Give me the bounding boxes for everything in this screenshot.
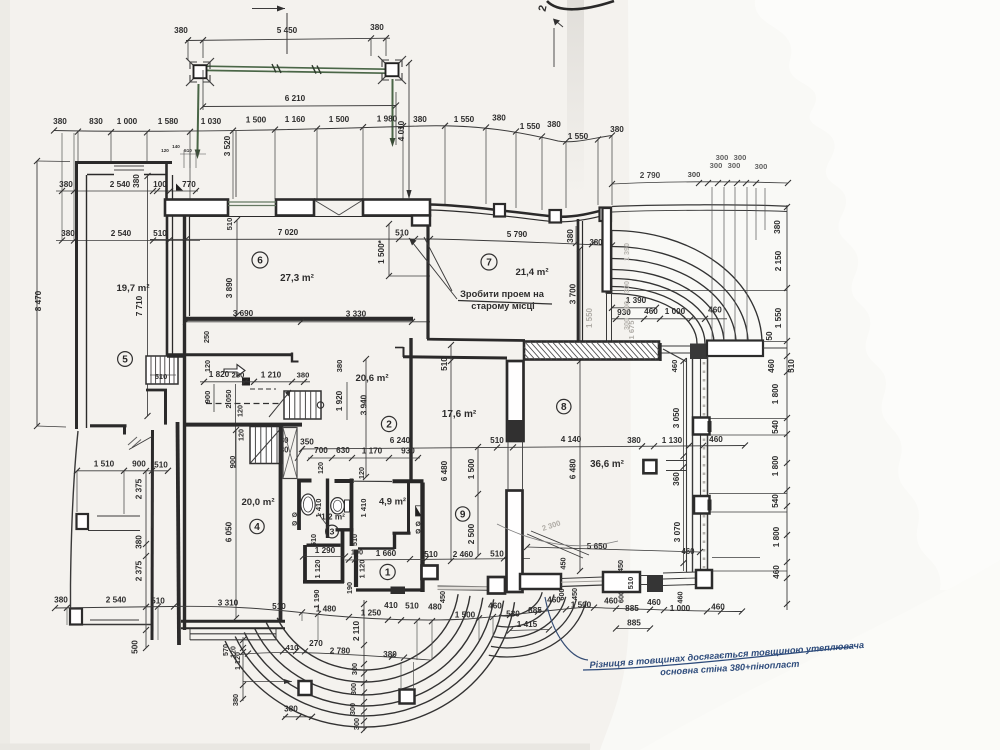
svg-text:885: 885	[627, 619, 641, 628]
wall r4 bottom b	[181, 627, 285, 629]
tick 6050 a	[233, 427, 239, 433]
tick top dim 0	[185, 37, 191, 43]
dim row 1510-900-510	[77, 470, 168, 472]
connector rc g	[712, 557, 760, 559]
tick rowB 418	[415, 455, 421, 461]
svg-text:885: 885	[528, 606, 542, 615]
tick 1500s b	[386, 273, 392, 279]
svg-text:510: 510	[787, 359, 796, 373]
terrace top edge outer	[612, 205, 787, 207]
tick main row 14	[563, 139, 569, 145]
tiny tick b	[189, 150, 191, 168]
dim line 380-5450-380 top	[186, 38, 390, 40]
room number 8 circle	[557, 399, 571, 413]
stair NW tread 4	[168, 356, 170, 384]
svg-text:510: 510	[272, 602, 286, 611]
step r4 end l	[189, 629, 191, 641]
svg-text:930: 930	[401, 447, 415, 456]
terrace ext vertical 3	[746, 187, 748, 340]
entrance fan arc 0	[225, 602, 514, 727]
connector rc c	[709, 493, 787, 495]
stair lower tread 4	[276, 427, 278, 464]
svg-text:460: 460	[488, 602, 502, 611]
tick south 6	[315, 611, 321, 617]
tick main row 16	[609, 133, 615, 139]
tick south 5	[299, 609, 305, 615]
svg-text:885: 885	[625, 604, 639, 613]
terrace ext vertical 0	[711, 187, 713, 340]
ext south 4	[317, 614, 319, 640]
wall west jog	[90, 424, 127, 427]
wall below NW stair	[146, 389, 167, 392]
tick 2500 556	[475, 553, 481, 559]
wall NW top inner b	[144, 174, 167, 176]
stair lower tread 0	[254, 427, 256, 464]
svg-text:380: 380	[59, 180, 73, 189]
svg-text:1 920: 1 920	[335, 390, 344, 411]
svg-text:380: 380	[383, 650, 397, 659]
svg-text:4,9 m²: 4,9 m²	[379, 496, 406, 507]
svg-text:360: 360	[672, 472, 681, 486]
terrace band join thin a	[659, 345, 690, 347]
svg-text:1 000: 1 000	[670, 604, 691, 613]
tick rightcol 341	[784, 338, 790, 344]
svg-text:6 480: 6 480	[440, 460, 449, 481]
black square column mark	[242, 378, 250, 386]
svg-text:380: 380	[335, 360, 344, 373]
svg-text:1 550: 1 550	[774, 307, 783, 328]
tick south 18	[613, 606, 619, 612]
blue note leader	[545, 597, 588, 660]
terrace ext short a	[755, 188, 757, 240]
svg-text:380: 380	[370, 23, 384, 32]
dim vert 3940	[365, 359, 367, 477]
svg-text:380: 380	[566, 229, 575, 243]
tick rowA 689	[686, 443, 692, 449]
sw diag mark	[129, 437, 152, 450]
extension line col1 left	[187, 41, 189, 60]
arrow pier dim	[284, 679, 292, 684]
dim column right	[786, 205, 788, 610]
terrace right thin	[763, 347, 787, 349]
step r4 b	[190, 639, 276, 641]
svg-text:1 030: 1 030	[201, 117, 222, 126]
svg-text:3 070: 3 070	[673, 521, 682, 542]
terrace west wall	[603, 208, 612, 292]
door jamb b	[522, 441, 524, 490]
svg-text:3 690: 3 690	[233, 309, 254, 318]
svg-text:1 550: 1 550	[585, 307, 594, 328]
hatch sw jog	[128, 437, 141, 448]
wall corridor east thin a	[606, 293, 608, 343]
svg-text:1 410: 1 410	[359, 498, 368, 517]
stair lower tread 3	[271, 427, 273, 464]
wall NW top inner a	[87, 174, 114, 176]
south thin d3	[663, 585, 696, 586]
ext 1500 star	[389, 275, 430, 277]
tick top dim 2	[368, 35, 374, 41]
svg-text:1 170: 1 170	[362, 447, 383, 456]
svg-text:1 210: 1 210	[261, 371, 282, 380]
pier tall lower	[507, 491, 523, 593]
tick 3690 c	[409, 319, 415, 325]
stair NW tread 1	[155, 356, 157, 384]
window r6 green a	[228, 201, 276, 203]
dim row 885b	[616, 628, 650, 630]
wall NW top outer	[75, 161, 172, 164]
tick 270row 404	[401, 655, 407, 661]
svg-text:190: 190	[345, 582, 354, 594]
terrace step arc 1	[612, 247, 748, 344]
tick top dim 3	[383, 35, 389, 41]
tick rightcol 506	[784, 503, 790, 509]
svg-text:900: 900	[132, 460, 146, 469]
tick south 7	[346, 614, 352, 620]
svg-text:300: 300	[688, 170, 701, 179]
svg-text:510: 510	[154, 461, 168, 470]
extension r7 wall	[575, 226, 577, 243]
entrance fan arc 3	[254, 598, 482, 695]
tick 300col 721	[361, 718, 367, 724]
pier vert b	[413, 662, 415, 688]
note underline	[458, 301, 552, 305]
window r6 V diag a	[315, 201, 339, 216]
extension line main row 12	[541, 137, 543, 210]
dim col 300	[363, 600, 365, 731]
pier r8 east b	[694, 496, 710, 514]
scan fold shadow streak	[567, 0, 584, 195]
tick 300col 711.5	[361, 709, 367, 715]
tick south 9	[398, 617, 404, 623]
window sill NW a	[114, 165, 144, 167]
south dark block	[647, 575, 663, 592]
wall hall west	[303, 545, 307, 583]
bottom scanner strip	[0, 744, 590, 750]
svg-text:1 550: 1 550	[520, 122, 541, 131]
svg-text:3 890: 3 890	[225, 277, 234, 298]
wall hall top seg3	[393, 479, 424, 483]
svg-text:120: 120	[357, 467, 366, 479]
wall stair corridor top	[167, 353, 292, 356]
dim vert 3050	[683, 361, 685, 571]
dim line 4010 vertical	[408, 62, 410, 198]
tick 930row 705	[702, 316, 708, 322]
pier s1	[422, 566, 438, 580]
tick south 11	[429, 618, 435, 624]
terrace step arc 2	[612, 259, 736, 344]
tick 2790 699	[696, 180, 702, 186]
tick sw1 77	[74, 468, 80, 474]
svg-text:380: 380	[132, 174, 141, 188]
entry side fan arc 1	[491, 599, 576, 648]
svg-text:350: 350	[300, 438, 314, 447]
svg-text:270: 270	[309, 639, 323, 648]
tick 3940 a	[363, 356, 369, 362]
tick swcol 648	[143, 645, 149, 651]
svg-text:1 160: 1 160	[285, 115, 306, 124]
column K2 outer mark	[378, 56, 406, 84]
extension line main row 8	[402, 126, 404, 199]
tick rightcol 434	[784, 431, 790, 437]
wall pier r7 c	[600, 208, 612, 222]
wall r5 east outer	[166, 199, 169, 357]
ext left col a	[61, 133, 63, 240]
wall sink west	[297, 479, 301, 531]
ext south 5	[416, 620, 418, 660]
white page edge region right	[600, 0, 1000, 750]
ext left col b	[73, 133, 75, 240]
south thin wavy b	[561, 585, 603, 587]
green tie arrowhead right	[390, 138, 396, 147]
dim row B 700	[308, 457, 420, 459]
svg-text:380: 380	[589, 238, 603, 247]
extension line main row 13	[565, 142, 567, 208]
wall r2 top	[403, 357, 507, 358]
tick 300col 604	[361, 601, 367, 607]
svg-text:Ø: Ø	[292, 521, 297, 528]
svg-text:5: 5	[122, 355, 128, 366]
tick main row 0	[51, 128, 57, 134]
tick 3890 a	[234, 217, 240, 223]
svg-text:2 540: 2 540	[106, 596, 127, 605]
svg-text:530: 530	[506, 610, 520, 619]
tick 2500 447	[475, 444, 481, 450]
dim horiz pier	[243, 681, 292, 683]
dim mini stair	[150, 374, 176, 376]
tick 5650 b	[697, 549, 703, 555]
tick main row 2	[108, 129, 114, 135]
wall room1 east	[420, 483, 424, 593]
wall r6 top block 3	[363, 200, 430, 216]
connector 8470 bottom	[37, 426, 66, 427]
window r6 V top	[314, 198, 363, 200]
entry arrow polygon	[224, 365, 245, 377]
connector rc d	[709, 511, 787, 513]
tick rightcol 418	[784, 415, 790, 421]
stair cut dashed line b	[250, 388, 276, 390]
tick 885b b	[647, 626, 653, 632]
svg-text:5 450: 5 450	[277, 26, 298, 35]
tick 2790 788	[785, 180, 791, 186]
tick 3690 b	[298, 319, 304, 325]
svg-text:450: 450	[616, 560, 625, 572]
stair up arrow diag	[269, 390, 291, 417]
wall wc divider	[326, 479, 329, 539]
pier tall upper black foot	[507, 420, 524, 441]
tick 2790 612	[609, 181, 615, 187]
tick south 1	[64, 605, 70, 611]
wall r2 left	[409, 338, 412, 480]
svg-text:8: 8	[561, 402, 567, 413]
svg-text:8 470: 8 470	[34, 290, 43, 311]
svg-text:450: 450	[438, 591, 447, 603]
extension line col1	[202, 41, 204, 58]
extension 6210 right	[395, 92, 397, 145]
entry side fan arc 2	[494, 597, 566, 638]
column K2 core	[386, 63, 399, 76]
extension line col2 right	[385, 39, 387, 56]
ext sw c	[151, 471, 153, 528]
tick 930row 644	[641, 316, 647, 322]
svg-text:380: 380	[297, 371, 310, 380]
window tick r8 a	[666, 460, 686, 462]
tick rowB 389	[386, 455, 392, 461]
dim vert 2500	[477, 447, 479, 556]
svg-text:460: 460	[708, 306, 722, 315]
tick nw row1 3	[154, 188, 160, 194]
svg-text:510: 510	[395, 229, 409, 238]
wall hall top2	[307, 544, 341, 547]
tick 7020 row 1	[396, 236, 402, 242]
column K1 outer mark	[186, 58, 214, 86]
svg-text:300: 300	[349, 683, 358, 695]
tick pierB 685	[240, 682, 246, 688]
terrace mid connector	[610, 290, 787, 292]
tick 7020 row 0	[183, 236, 189, 242]
svg-text:510: 510	[626, 577, 635, 590]
svg-text:460: 460	[772, 565, 781, 579]
wall r4 top corridor	[184, 423, 302, 427]
svg-text:3 520: 3 520	[223, 135, 232, 156]
svg-text:540: 540	[771, 494, 780, 508]
wall corridor east piece	[607, 231, 612, 293]
svg-text:510: 510	[184, 148, 192, 153]
dim row 1415	[510, 630, 549, 631]
svg-text:6: 6	[257, 256, 263, 267]
stair NW tread 0	[150, 356, 152, 384]
wall r4 bottom a	[181, 620, 285, 623]
tick 1660 520	[517, 555, 523, 561]
wall thin corridor319	[354, 480, 392, 482]
tick main row 3	[144, 129, 150, 135]
wall r4 east	[279, 427, 283, 621]
terrace step arc 4	[612, 279, 714, 344]
tick 270row 392	[389, 654, 395, 660]
dim line 5650	[527, 547, 700, 552]
wall hall bottom	[303, 580, 344, 584]
svg-text:2 050: 2 050	[224, 389, 233, 408]
porch outer edge	[71, 431, 79, 625]
terrace band join thin b	[659, 352, 690, 354]
tick south 16	[563, 606, 569, 612]
svg-text:5 790: 5 790	[507, 230, 528, 239]
svg-text:3 050: 3 050	[672, 407, 681, 428]
dim line 1500 star	[388, 224, 390, 276]
wall B r4 west outer	[178, 422, 180, 645]
stair upper tread 3	[304, 391, 306, 419]
wall room1 top	[358, 547, 395, 549]
porch step b	[88, 530, 140, 532]
stair lower diag	[250, 427, 283, 464]
svg-text:Ø: Ø	[415, 521, 420, 528]
tick 7020 row 6	[609, 243, 615, 249]
dim row 380 pierA	[283, 716, 312, 718]
tick pierB 652	[240, 649, 246, 655]
threshold a	[438, 585, 489, 588]
tick nw row2 2	[150, 238, 156, 244]
svg-text:1 550: 1 550	[454, 115, 475, 124]
pier s2	[488, 577, 505, 594]
entrance fan arc 1	[235, 601, 503, 716]
white scallop blobs top right	[755, 0, 1000, 590]
entry side fan arc 0	[489, 601, 586, 657]
tick rowB 352	[349, 455, 355, 461]
tick rowA 513	[510, 444, 516, 450]
svg-text:Ø: Ø	[292, 512, 297, 519]
dim vert 6050	[235, 430, 237, 618]
dim row 7020-5790	[150, 239, 612, 246]
svg-text:2 375: 2 375	[135, 478, 144, 499]
dim col pierB	[242, 637, 244, 701]
tick nw row1 5	[193, 188, 199, 194]
svg-text:600: 600	[557, 588, 566, 600]
extension line main row 11	[515, 132, 517, 208]
tick swcol 471	[143, 468, 149, 474]
leader 5650 b	[531, 531, 589, 555]
tick rightcol 372	[784, 369, 790, 375]
tick 1390 b	[653, 305, 659, 311]
svg-text:300: 300	[755, 162, 768, 171]
leader room3	[318, 513, 326, 524]
svg-text:450: 450	[570, 588, 579, 600]
tick rightcol 490	[784, 487, 790, 493]
svg-text:460: 460	[711, 602, 725, 611]
svg-text:510: 510	[440, 357, 449, 371]
svg-text:120: 120	[237, 429, 246, 441]
dim row 270	[240, 652, 430, 660]
tick main row 15	[595, 137, 601, 143]
tick rightcol 578	[784, 575, 790, 581]
wall stair corridor step horiz	[292, 361, 299, 363]
ext south 7	[478, 618, 480, 640]
tick 3050 563	[681, 560, 687, 566]
svg-text:3 940: 3 940	[360, 394, 369, 415]
tick 300col 702	[361, 699, 367, 705]
wall hall east	[341, 531, 345, 583]
door swing r8ne	[663, 349, 686, 362]
stair lower tread 1	[260, 427, 262, 464]
svg-text:380: 380	[53, 117, 67, 126]
wall corridor east thin b	[611, 293, 613, 343]
extension line main row 10	[485, 128, 487, 204]
window r6 green b	[228, 205, 276, 207]
tick rowA 745	[742, 443, 748, 449]
fan pier A	[299, 681, 312, 695]
tick south 19	[647, 607, 653, 613]
threshold fill	[438, 586, 489, 589]
stair cut dashed line	[206, 403, 281, 405]
tick south 23	[739, 609, 745, 615]
tick 930row 616	[613, 316, 619, 322]
tick rowA 302	[299, 446, 305, 452]
svg-text:380: 380	[610, 125, 624, 134]
stair lower tread 2	[265, 427, 267, 464]
door jamb a	[507, 441, 509, 490]
svg-text:380: 380	[547, 120, 561, 129]
wall hatched band	[524, 342, 659, 360]
tick rightcol 604	[784, 601, 790, 607]
svg-text:380: 380	[773, 220, 782, 234]
svg-text:460: 460	[709, 435, 723, 444]
tick col451 561	[448, 558, 454, 564]
room number 2 circle	[381, 416, 396, 431]
svg-text:300: 300	[728, 161, 741, 170]
tick south 10	[414, 618, 420, 624]
svg-text:300: 300	[348, 703, 357, 715]
tick corridor 254	[251, 379, 257, 385]
svg-text:9: 9	[460, 510, 466, 521]
svg-text:4: 4	[254, 522, 260, 533]
